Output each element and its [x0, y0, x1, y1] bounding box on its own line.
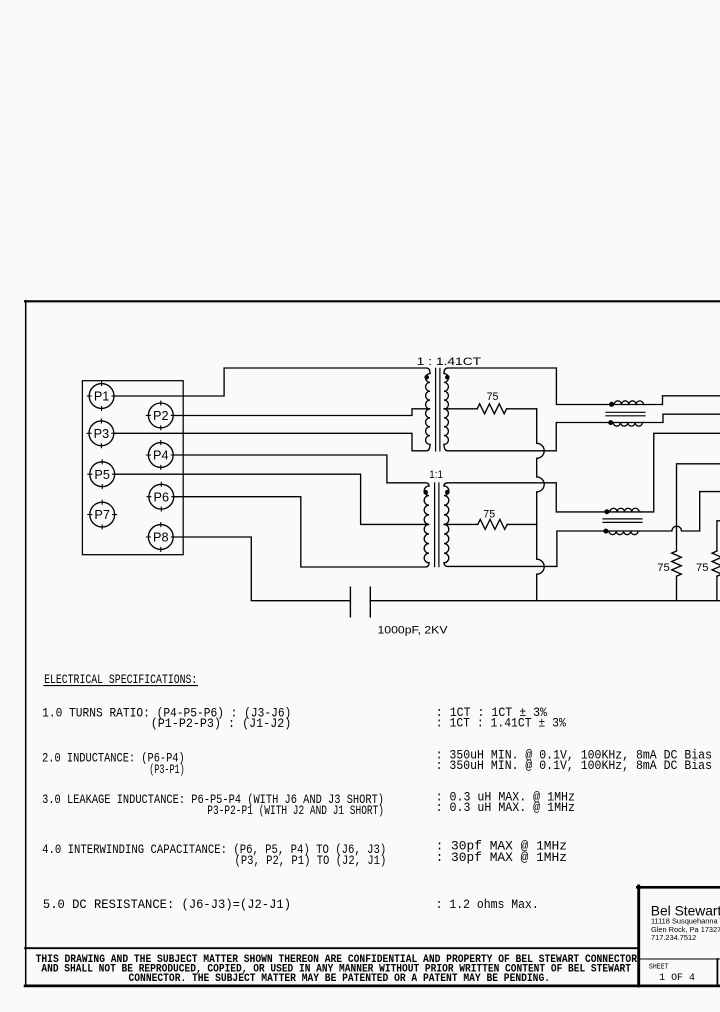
svg-text:75: 75: [657, 562, 670, 574]
choke L1 bottom winding: [609, 423, 644, 427]
title block left border: [637, 886, 640, 986]
resistor R2: [478, 519, 507, 529]
svg-text:P2: P2: [153, 409, 169, 423]
svg-text:75: 75: [483, 508, 495, 520]
svg-text:1 OF 4: 1 OF 4: [659, 971, 695, 983]
svg-text:CONNECTOR. THE SUBJECT MATTER: CONNECTOR. THE SUBJECT MATTER MAY BE PAT…: [129, 972, 551, 985]
transformer T1 core: [436, 368, 440, 451]
resistor R3: [672, 551, 682, 576]
svg-text:1 : 1.41CT: 1 : 1.41CT: [417, 356, 482, 368]
transformer T1 primary winding: [426, 374, 430, 445]
svg-text:P6: P6: [154, 490, 170, 504]
choke L2 top phase dot: [604, 509, 609, 514]
choke L2 bottom winding: [607, 531, 640, 535]
svg-text:P1: P1: [94, 390, 110, 404]
svg-text:: 1CT : 1.41CT ± 3%: : 1CT : 1.41CT ± 3%: [436, 717, 566, 731]
choke L1 top phase dot: [609, 402, 614, 407]
wire resistor R1 to bus: [507, 408, 537, 410]
svg-text:P8: P8: [153, 531, 169, 545]
transformer T2 primary phase dot: [423, 490, 428, 495]
svg-text:717.234.7512: 717.234.7512: [651, 933, 696, 942]
wire T2 secondary top to choke L2 top: [444, 483, 608, 512]
svg-text:: 1.2 ohms Max.: : 1.2 ohms Max.: [436, 898, 539, 912]
wire P4 to T2 primary top: [173, 455, 429, 486]
sheet border bottom: [25, 985, 720, 988]
capacitor C1 left plate: [349, 587, 351, 617]
choke L1 bottom phase dot: [608, 420, 613, 425]
wire P6 to T2 primary bottom: [174, 497, 429, 567]
choke L1 core: [606, 412, 645, 416]
capacitor C1 right plate: [369, 587, 371, 617]
transformer T1 secondary phase dot: [445, 375, 450, 380]
pin P4: [146, 441, 175, 470]
pin P6: [147, 482, 176, 511]
wire P1 to T1 primary top: [114, 368, 430, 396]
wire P8 to capacitor C1: [173, 537, 350, 601]
pin P3: [87, 419, 116, 448]
svg-text:: 30pf MAX @ 1MHz: : 30pf MAX @ 1MHz: [436, 851, 567, 865]
connector P box: [82, 381, 183, 555]
disclaimer box top rule: [25, 947, 638, 949]
wire resistor R2 to bus junction: [507, 523, 537, 525]
pin P5: [88, 460, 117, 489]
svg-text:5.0 DC RESISTANCE: (J6-J3)=(J: 5.0 DC RESISTANCE: (J6-J3)=(J2-J1): [43, 898, 291, 912]
title block top border: [637, 886, 720, 889]
choke L2 core: [603, 519, 642, 523]
transformer T1 primary phase dot: [424, 375, 429, 380]
sheet border left: [25, 301, 27, 986]
wire T1 center tap to resistor R1: [444, 408, 477, 410]
pin P1: [87, 382, 116, 411]
wire resistor R3 to ground rail: [676, 576, 678, 601]
wire edge to resistor R3: [677, 464, 720, 551]
svg-text:(P1-P2-P3) : (J1-J2): (P1-P2-P3) : (J1-J2): [151, 717, 292, 731]
svg-text:P5: P5: [94, 468, 110, 482]
wire choke L2 bottom to edge (J side, hop over R3 branch): [640, 492, 720, 531]
svg-text:: 350uH MIN. @ 0.1V, 100KHz,: : 350uH MIN. @ 0.1V, 100KHz, 8mA DC Bias: [436, 759, 712, 773]
wire T1 secondary bottom to choke L1 bottom: [444, 423, 609, 451]
choke L2 bottom phase dot: [603, 529, 608, 534]
choke L1 top winding: [610, 401, 645, 405]
spec heading underline: [44, 685, 198, 687]
svg-text:75: 75: [487, 391, 499, 403]
wire T2 center tap to resistor R2: [444, 523, 478, 525]
svg-text:1000pF, 2KV: 1000pF, 2KV: [378, 624, 449, 636]
svg-text:P3: P3: [94, 427, 110, 441]
svg-text:(P3-P1): (P3-P1): [149, 763, 185, 777]
wire capacitor C1 to right edge (ground rail): [370, 600, 720, 602]
wire P5 to T2 primary tap: [115, 474, 429, 524]
pin P2: [146, 401, 175, 430]
svg-text:: 0.3 uH MAX. @ 1MHz: : 0.3 uH MAX. @ 1MHz: [436, 801, 575, 815]
wire P3 to T1 primary bottom: [114, 433, 430, 451]
resistor R1: [477, 404, 506, 414]
choke L2 top winding: [608, 508, 641, 512]
svg-text:75: 75: [696, 562, 709, 574]
wire P2 to T1 primary tap: [173, 409, 429, 416]
resistor R4: [712, 551, 720, 576]
wire choke L1 bottom to edge (J side): [643, 414, 720, 422]
transformer T2 primary winding: [424, 486, 429, 563]
transformer T2 secondary phase dot: [445, 490, 450, 495]
transformer T2 secondary winding: [444, 486, 449, 563]
sheet border top: [25, 300, 720, 302]
transformer T1 secondary winding: [444, 374, 448, 445]
wire T2 secondary bottom to choke L2 bottom: [444, 531, 607, 566]
svg-text:P4: P4: [153, 449, 169, 463]
title block divider rule: [639, 958, 720, 960]
svg-text:(P3, P2, P1) TO (J2, J1): (P3, P2, P1) TO (J2, J1): [235, 854, 387, 868]
svg-text:1:1: 1:1: [429, 469, 443, 481]
svg-text:P7: P7: [94, 508, 110, 522]
wire resistor R4 to ground rail: [716, 576, 718, 601]
pin P8: [146, 523, 175, 552]
wire R1/R2 bus down to ground rail (with crossover hops): [537, 409, 545, 601]
wire T1 secondary top to choke L1 top: [444, 368, 610, 405]
wire edge stub to resistor R4: [717, 521, 720, 551]
svg-text:P3-P2-P1 (WITH J2 AND J1 SHORT: P3-P2-P1 (WITH J2 AND J1 SHORT): [207, 804, 384, 818]
pin P7: [88, 500, 117, 529]
transformer T2 core: [435, 483, 439, 567]
sheet cell divider: [716, 959, 718, 986]
wire choke L1 top to edge (J side): [644, 396, 720, 405]
wire choke L2 top to edge (J side): [641, 433, 720, 512]
